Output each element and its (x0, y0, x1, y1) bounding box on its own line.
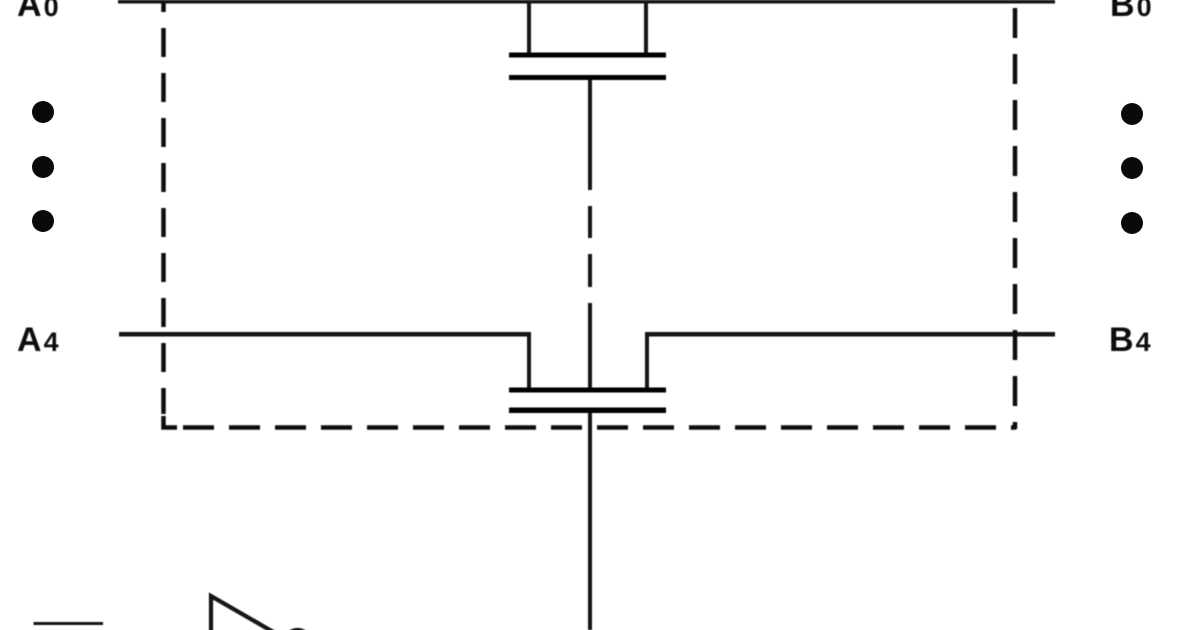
svg-text:B4: B4 (1109, 321, 1151, 359)
svg-text:A4: A4 (17, 321, 59, 359)
svg-text:A0: A0 (17, 0, 59, 24)
svg-text:B0: B0 (1110, 0, 1152, 24)
